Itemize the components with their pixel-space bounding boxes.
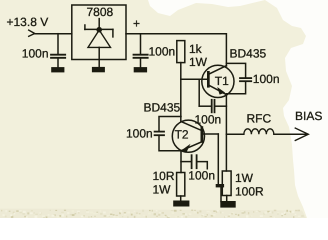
- svg-text:100n: 100n: [195, 112, 222, 126]
- svg-text:1W: 1W: [153, 182, 172, 196]
- svg-text:BD435: BD435: [230, 47, 267, 61]
- svg-text:1W: 1W: [189, 55, 208, 69]
- svg-text:BIAS: BIAS: [295, 109, 322, 123]
- svg-text:T2: T2: [175, 128, 189, 142]
- svg-text:+: +: [133, 17, 140, 31]
- svg-text:BD435: BD435: [144, 101, 181, 115]
- svg-text:100n: 100n: [253, 72, 280, 86]
- svg-text:+13.8 V: +13.8 V: [7, 15, 49, 29]
- svg-text:10R: 10R: [153, 169, 175, 183]
- svg-text:RFC: RFC: [247, 112, 272, 126]
- svg-text:T1: T1: [215, 74, 229, 88]
- svg-text:100n: 100n: [22, 47, 49, 61]
- svg-text:100n: 100n: [126, 126, 153, 140]
- svg-text:100n: 100n: [149, 45, 176, 59]
- svg-text:7808: 7808: [87, 5, 114, 19]
- svg-text:1k: 1k: [189, 42, 203, 56]
- svg-text:1W: 1W: [235, 171, 254, 185]
- svg-text:100R: 100R: [235, 184, 264, 198]
- svg-text:100n: 100n: [188, 168, 215, 182]
